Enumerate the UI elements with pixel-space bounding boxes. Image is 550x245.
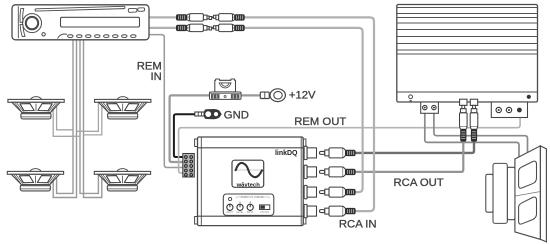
svg-text:linkDQ: linkDQ	[275, 150, 298, 157]
sub frame side slab	[540, 146, 546, 242]
sub frame front face	[515, 146, 540, 239]
svg-text:+12V: +12V	[289, 90, 316, 102]
fuse holder base	[210, 92, 242, 99]
svg-text:RCA OUT: RCA OUT	[394, 177, 444, 189]
linkDQ mounting tab bottom-right	[303, 217, 306, 225]
top right button 1	[128, 8, 137, 12]
swoosh curve	[58, 34, 68, 39]
wire speaker bundle line 4	[84, 40, 102, 198]
bracket line	[237, 197, 270, 198]
fuse window	[219, 82, 232, 84]
wire REM IN from head unit	[148, 35, 184, 168]
+12V ring	[270, 89, 285, 102]
wire RCA IN cable to plug4 (from head unit row1)	[148, 17, 374, 211]
button row (8 ovals)	[68, 35, 136, 38]
wire speaker bundle line 2	[53, 40, 76, 198]
faceplate blade upper	[20, 9, 24, 23]
display	[61, 17, 140, 27]
switch	[260, 205, 270, 210]
amp speaker terminal block	[421, 102, 439, 113]
svg-text:ON OFF: ON OFF	[260, 211, 270, 214]
wire RCA IN cable to plug3 (from head unit row2)	[148, 28, 363, 192]
linkDQ control panel	[223, 194, 273, 215]
sine wave	[236, 163, 262, 177]
GND ring body	[204, 110, 221, 119]
svg-text:GND: GND	[224, 109, 249, 121]
wire subwoofer A	[425, 113, 519, 158]
arrows above knobs	[239, 201, 240, 202]
svg-text:REM OUT: REM OUT	[294, 116, 346, 128]
linkDQ mounting tab bottom-left	[195, 217, 198, 225]
fuse body	[215, 79, 236, 92]
wire speaker bundle line 1	[57, 40, 73, 193]
tiny panel texts	[226, 196, 269, 214]
svg-text:wāvtech: wāvtech	[236, 182, 261, 188]
linkDQ mounting tab top-right	[303, 139, 306, 147]
speaker S2 (top right)	[95, 97, 151, 119]
linkDQ RCA jack+plug row3	[304, 185, 355, 198]
linkDQ terminal block	[183, 154, 195, 178]
linkDQ mounting tab top-left	[195, 139, 198, 147]
sub magnet main	[493, 163, 507, 223]
amp bottom band	[397, 91, 538, 93]
knob outer	[23, 14, 42, 33]
sub magnet cap	[486, 174, 493, 212]
speaker S3 (bottom left)	[7, 169, 63, 191]
sub face midline	[515, 192, 540, 196]
wavtech logo box	[232, 160, 264, 187]
wire stub speaker S1 inner	[57, 102, 73, 130]
heatsink fins	[397, 8, 538, 55]
svg-text:IN: IN	[150, 71, 161, 83]
sub magnet inner ring	[507, 167, 515, 219]
linkDQ body	[198, 137, 304, 226]
svg-text:LEVEL: LEVEL	[236, 211, 244, 214]
interconnect pair row 1	[177, 14, 245, 22]
sub hole lower	[519, 197, 537, 224]
wire stub speaker S1 outer	[53, 102, 80, 136]
wire stub speaker S2 inner	[77, 103, 99, 132]
linkDQ RCA jack+plug row4	[304, 204, 355, 217]
svg-text:PHANTOM PWR HD: PHANTOM PWR HD	[241, 196, 264, 199]
knob 1	[227, 204, 233, 210]
amp RCA plug B	[470, 99, 478, 141]
amp body	[397, 5, 538, 103]
wire subwoofer B	[434, 113, 528, 153]
wire speaker bundle line 3	[80, 40, 98, 193]
speaker S4 (bottom right)	[94, 169, 150, 191]
svg-text:INPUT: INPUT	[226, 211, 234, 214]
top right button 2	[138, 8, 145, 12]
wire RCA OUT cable 1 (linkDQ out1 to amp plug B)	[352, 140, 474, 153]
svg-text:RCA IN: RCA IN	[339, 219, 377, 231]
wire RCA OUT cable 2 (linkDQ out2 to amp plug A)	[352, 140, 463, 172]
sub hole upper	[519, 161, 537, 188]
amp power terminal block	[491, 102, 527, 118]
small button below knob	[42, 33, 45, 36]
GND crimp	[195, 112, 204, 116]
knob inner	[26, 17, 38, 29]
linkDQ RCA jack+plug row1	[304, 146, 355, 159]
svg-text:BASS: BASS	[247, 211, 254, 214]
+12V crimp	[260, 92, 269, 98]
faceplate hinge line	[17, 6, 19, 38]
speaker S1 (top left)	[8, 97, 64, 119]
interconnect pair row 2	[177, 24, 245, 32]
wire +12V	[170, 95, 261, 162]
amp RCA plug A	[460, 99, 468, 141]
knob 2	[237, 204, 243, 210]
LED	[229, 197, 232, 200]
wire REM OUT	[179, 118, 520, 174]
head unit body	[12, 5, 149, 40]
faceplate blade lower	[20, 24, 25, 36]
wire stub speaker S2 outer	[84, 103, 102, 135]
linkDQ RCA jack+plug row2	[304, 165, 355, 178]
knob 3	[247, 204, 253, 210]
wire GND (black)	[174, 114, 197, 157]
CD slot	[35, 6, 125, 11]
